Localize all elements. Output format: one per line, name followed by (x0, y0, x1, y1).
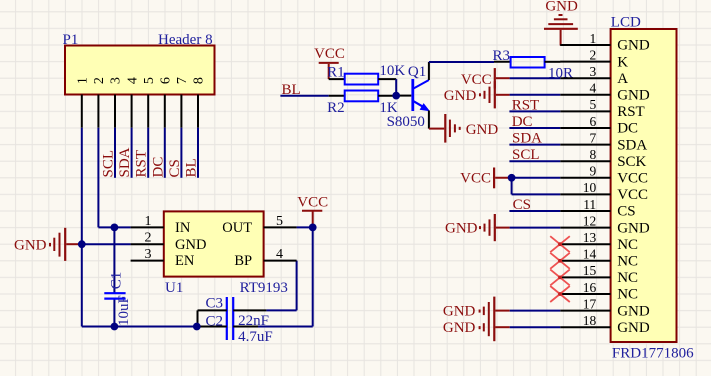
svg-text:U1: U1 (165, 280, 183, 296)
svg-text:15: 15 (583, 263, 597, 278)
svg-text:1: 1 (76, 77, 91, 84)
svg-text:5: 5 (142, 77, 157, 84)
svg-text:GND: GND (617, 88, 650, 104)
svg-text:RT9193: RT9193 (240, 280, 288, 296)
svg-text:7: 7 (589, 130, 596, 145)
svg-text:DC: DC (617, 121, 638, 137)
svg-text:8: 8 (192, 77, 207, 84)
svg-text:C2: C2 (205, 313, 223, 329)
svg-text:NC: NC (617, 287, 638, 303)
svg-text:3: 3 (589, 64, 596, 79)
svg-text:SCL: SCL (512, 147, 540, 163)
svg-text:GND: GND (617, 38, 650, 54)
svg-text:1: 1 (145, 214, 152, 229)
svg-text:6: 6 (159, 77, 174, 84)
svg-text:RST: RST (134, 150, 150, 178)
svg-text:VCC: VCC (461, 72, 492, 88)
svg-text:16: 16 (583, 280, 597, 295)
svg-text:CS: CS (617, 204, 635, 220)
svg-text:4: 4 (589, 81, 596, 96)
svg-text:10K: 10K (379, 63, 405, 79)
svg-text:VCC: VCC (460, 171, 491, 187)
svg-text:22nF: 22nF (238, 313, 269, 329)
svg-text:12: 12 (583, 213, 597, 228)
svg-text:10: 10 (583, 180, 597, 195)
svg-text:13: 13 (583, 230, 597, 245)
svg-text:Header 8: Header 8 (158, 32, 213, 48)
svg-text:11: 11 (583, 197, 596, 212)
svg-text:GND: GND (617, 220, 650, 236)
svg-text:SCK: SCK (617, 154, 646, 170)
svg-text:K: K (617, 54, 628, 70)
svg-text:RST: RST (617, 104, 645, 120)
svg-text:DC: DC (150, 157, 166, 178)
svg-text:FRD1771806: FRD1771806 (612, 346, 694, 362)
svg-text:S8050: S8050 (387, 114, 425, 130)
svg-text:7: 7 (175, 77, 190, 84)
svg-text:SDA: SDA (617, 137, 647, 153)
svg-text:GND: GND (617, 303, 650, 319)
svg-text:2: 2 (589, 47, 596, 62)
svg-text:6: 6 (589, 114, 596, 129)
svg-text:C3: C3 (205, 296, 223, 312)
svg-text:4: 4 (125, 77, 140, 84)
svg-text:14: 14 (583, 247, 597, 262)
svg-text:EN: EN (175, 253, 195, 269)
svg-text:18: 18 (583, 313, 597, 328)
svg-text:DC: DC (512, 114, 533, 130)
svg-text:3: 3 (109, 77, 124, 84)
svg-text:1: 1 (589, 31, 596, 46)
svg-text:GND: GND (466, 122, 499, 138)
svg-text:5: 5 (589, 97, 596, 112)
svg-text:NC: NC (617, 270, 638, 286)
svg-text:SDA: SDA (117, 147, 133, 177)
svg-text:SDA: SDA (512, 131, 542, 147)
svg-text:3: 3 (145, 247, 152, 262)
svg-text:VCC: VCC (314, 46, 345, 62)
svg-text:BL: BL (282, 82, 301, 98)
svg-text:IN: IN (175, 220, 191, 236)
svg-text:R3: R3 (492, 48, 510, 64)
svg-text:GND: GND (175, 237, 206, 253)
svg-text:4.7uF: 4.7uF (238, 329, 273, 345)
svg-text:BP: BP (234, 253, 252, 269)
svg-text:5: 5 (276, 214, 283, 229)
svg-text:CS: CS (513, 197, 531, 213)
svg-text:VCC: VCC (617, 171, 648, 187)
svg-text:GND: GND (444, 88, 477, 104)
svg-text:R1: R1 (327, 64, 345, 80)
svg-text:GND: GND (443, 320, 476, 336)
svg-text:GND: GND (445, 221, 478, 237)
svg-text:P1: P1 (63, 32, 79, 48)
svg-text:NC: NC (617, 254, 638, 270)
svg-text:GND: GND (617, 320, 650, 336)
svg-text:GND: GND (443, 304, 476, 320)
svg-text:NC: NC (617, 237, 638, 253)
svg-text:GND: GND (14, 237, 47, 253)
svg-text:A: A (617, 71, 628, 87)
svg-text:Q1: Q1 (408, 64, 426, 80)
svg-text:RST: RST (512, 97, 540, 113)
svg-text:8: 8 (589, 147, 596, 162)
svg-text:LCD: LCD (611, 15, 641, 31)
svg-text:VCC: VCC (617, 187, 648, 203)
svg-text:OUT: OUT (222, 220, 252, 236)
svg-text:17: 17 (583, 296, 597, 311)
svg-text:4: 4 (276, 247, 283, 262)
svg-text:SCL: SCL (101, 150, 117, 178)
svg-text:R2: R2 (327, 100, 345, 116)
svg-text:2: 2 (92, 77, 107, 84)
svg-text:10uF: 10uF (116, 295, 132, 326)
svg-text:BL: BL (184, 158, 200, 177)
svg-text:CS: CS (167, 159, 183, 177)
svg-text:9: 9 (589, 164, 596, 179)
svg-text:2: 2 (145, 231, 152, 246)
svg-text:GND: GND (545, 0, 578, 15)
svg-text:C1: C1 (109, 272, 125, 290)
svg-text:VCC: VCC (297, 195, 328, 211)
